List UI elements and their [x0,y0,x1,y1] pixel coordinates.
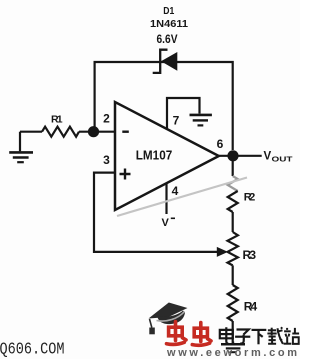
ground bottom [221,343,245,346]
watermark red char chong 1 [167,322,187,345]
wire pin6 to Vout [219,155,262,157]
watermark char xia [252,330,267,344]
svg-text:R3: R3 [243,248,257,262]
wire R2 to R3 [232,212,234,232]
svg-text:4: 4 [172,184,179,198]
watermark red char chong 2 [192,323,211,346]
wire output node down [232,156,234,176]
wire R3 to R4 [232,265,234,285]
svg-text:R2: R2 [244,192,256,204]
svg-text:6.6V: 6.6V [157,32,178,46]
svg-text:www.eeworm.com: www.eeworm.com [166,347,297,359]
svg-text:V: V [264,151,272,163]
svg-text:2: 2 [103,111,110,125]
watermark graduation cap board [149,303,188,319]
watermark char dian [220,327,233,344]
watermark gray diagonal stroke [117,178,247,217]
ground input left [19,132,21,152]
watermark char zi [235,330,250,344]
resistor R2 lower [228,191,238,212]
resistor R2 upper (gray faded) [228,176,238,191]
svg-text:V: V [162,217,170,229]
wire R1 to pin2 [79,131,115,133]
ground pin7 [190,114,212,117]
wire pin7 to ground [167,98,200,129]
wire pin4 stub [165,184,167,215]
svg-text:1N4611: 1N4611 [150,18,188,30]
wire feedback loop top [95,62,233,150]
watermark cap crown [157,311,185,325]
svg-text:Q606.COM: Q606.COM [0,340,65,359]
resistor R4 [228,285,238,321]
resistor R1 [42,127,79,137]
plus sign pin3 [120,169,131,180]
wiper arrow into R3 [217,247,228,257]
wire pin3 to R3 wiper [94,173,219,252]
svg-text:D1: D1 [163,6,174,17]
svg-text:7: 7 [173,113,180,127]
node junction pin2 [88,126,99,137]
svg-text:R4: R4 [244,300,258,314]
svg-text:R1: R1 [51,114,63,126]
watermark cap tassel [150,319,152,328]
watermark cap band highlight [157,312,185,322]
minus sign pin2 [122,130,129,132]
wire R1 input line [20,131,42,133]
op-amp U1 LM107 triangle [115,102,219,210]
svg-text:OUT: OUT [272,155,294,164]
zener diode D1 [153,50,178,73]
svg-text:LM107: LM107 [136,148,173,163]
node junction output [227,150,238,161]
watermark char zai [267,327,283,344]
wire R4 to ground [232,321,234,343]
watermark char zhan [284,328,300,344]
svg-text:6: 6 [217,137,224,151]
svg-text:3: 3 [103,153,110,167]
resistor R3 [228,232,238,265]
